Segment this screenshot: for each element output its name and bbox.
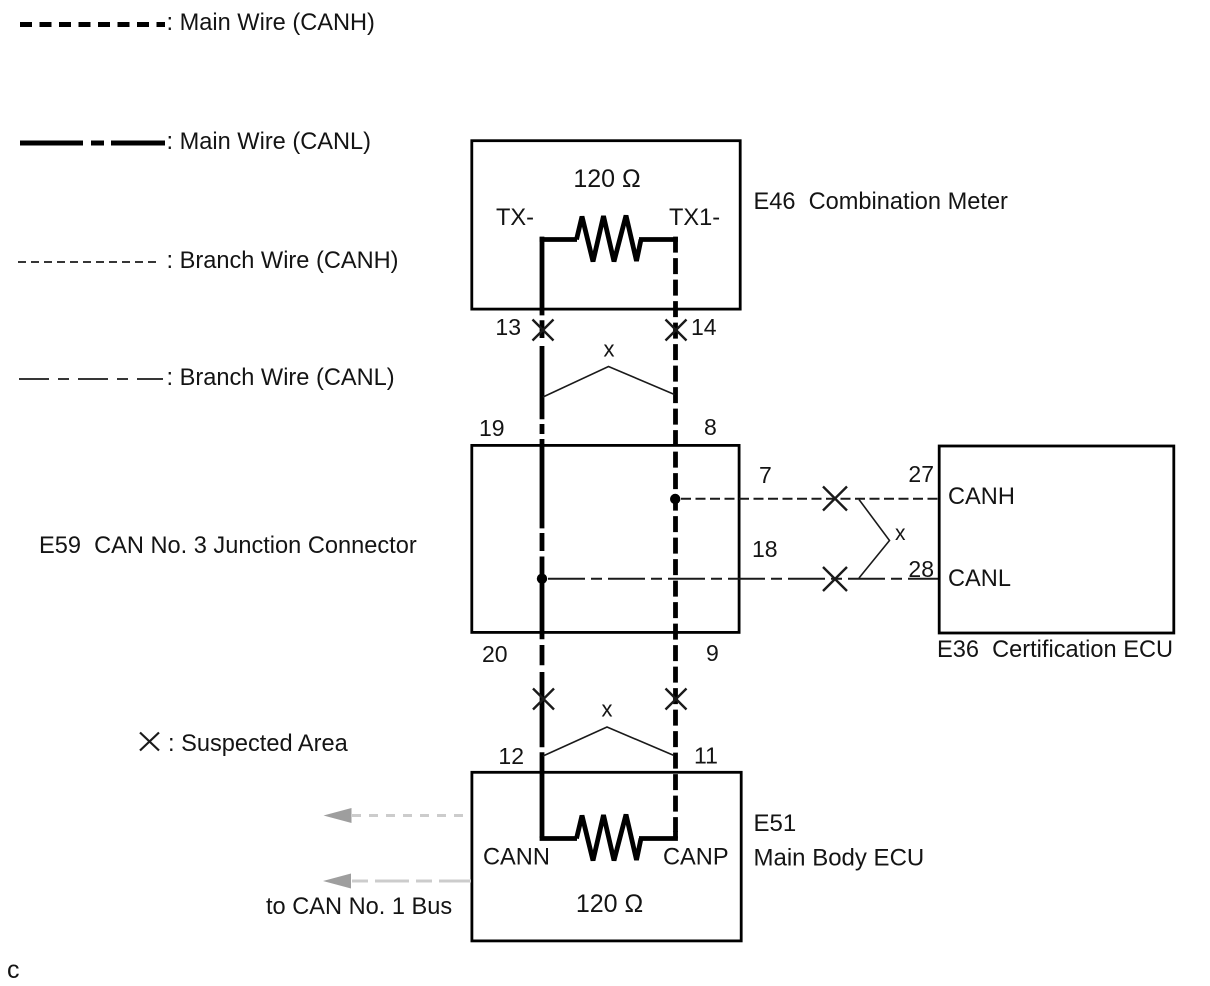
gray dashed line (CANH to CAN No.1 bus)	[352, 814, 471, 817]
wire CANH main vertical (TX1- to CANP)	[673, 237, 678, 832]
resistor R 120 ohm (E46)	[577, 216, 642, 262]
legend line: Branch Wire (CANL)	[19, 378, 163, 380]
svg-text:20: 20	[482, 641, 508, 667]
legend line: Main Wire (CANH)	[20, 22, 165, 27]
suspected X on CANL wire below E59	[533, 689, 554, 710]
svg-text:CANH: CANH	[948, 484, 1015, 510]
svg-text:to CAN No. 1 Bus: to CAN No. 1 Bus	[266, 894, 452, 920]
suspected X on CANL branch wire	[823, 567, 847, 591]
svg-text:TX1-: TX1-	[669, 205, 720, 231]
svg-text:12: 12	[498, 743, 524, 769]
arrow to CAN No.1 bus (CANL, gray dash-dot)	[323, 874, 351, 889]
resistor lead right (E51)	[639, 836, 678, 841]
branch wire CANH horizontal (junction to E36 pin 27)	[681, 498, 939, 500]
wire CANL main vertical (TX- to CANN), hand-phased dashes	[540, 237, 545, 838]
resistor lead right (E46)	[639, 237, 678, 242]
wire CANH corner segment at CANP lead	[673, 831, 678, 839]
svg-text:120 Ω: 120 Ω	[576, 890, 643, 918]
svg-text:: Suspected Area: : Suspected Area	[168, 731, 349, 757]
pointer roof line to both wires (lower)	[543, 727, 674, 756]
legend line: Main Wire (CANL)	[20, 141, 165, 146]
svg-text:9: 9	[706, 640, 719, 666]
svg-text:: Branch Wire (CANL): : Branch Wire (CANL)	[167, 365, 395, 391]
svg-text:28: 28	[908, 556, 934, 582]
suspected X on CANH wire below E46	[666, 320, 687, 341]
legend line: Branch Wire (CANH)	[18, 261, 157, 263]
svg-text:27: 27	[908, 461, 934, 487]
svg-text:TX-: TX-	[496, 205, 534, 231]
svg-text:: Branch Wire (CANH): : Branch Wire (CANH)	[167, 248, 399, 274]
resistor R 120 ohm (E51)	[577, 815, 642, 861]
svg-text:x: x	[602, 697, 613, 722]
svg-text:E51: E51	[754, 810, 797, 837]
svg-text:18: 18	[752, 536, 778, 562]
svg-text:CANN: CANN	[483, 845, 550, 871]
svg-text:14: 14	[691, 314, 717, 340]
svg-text:CANL: CANL	[948, 566, 1011, 592]
svg-text:x: x	[604, 337, 615, 362]
svg-text:8: 8	[704, 414, 717, 440]
ECU box E36 Certification ECU	[939, 446, 1174, 633]
svg-text:19: 19	[479, 415, 505, 441]
svg-text:Main Body ECU: Main Body ECU	[754, 845, 925, 872]
svg-text:E59 CAN No. 3 Junction Connec: E59 CAN No. 3 Junction Connector	[39, 533, 417, 559]
legend X symbol: Suspected Area	[140, 733, 159, 751]
svg-text:120 Ω: 120 Ω	[573, 165, 640, 193]
resistor lead left (E46)	[540, 237, 577, 242]
svg-text:11: 11	[694, 743, 718, 769]
branch wire CANL horizontal (junction to E36 pin 28)	[548, 578, 939, 580]
pointer chevron to E36 branch wires	[859, 500, 890, 579]
gray dash-dot line (CANL to CAN No.1 bus)	[352, 880, 471, 883]
suspected X on CANL wire below E46	[533, 320, 554, 341]
svg-text:c: c	[7, 956, 20, 984]
connector box E46 Combination Meter	[472, 141, 740, 309]
suspected X on CANH branch wire	[823, 487, 847, 511]
svg-text:7: 7	[759, 462, 772, 488]
ECU box E51 Main Body ECU	[472, 772, 741, 941]
svg-text:E46 Combination Meter: E46 Combination Meter	[754, 189, 1009, 215]
svg-text:E36 Certification ECU: E36 Certification ECU	[937, 637, 1173, 663]
suspected X on CANH wire below E59	[666, 689, 687, 710]
svg-text:CANP: CANP	[663, 845, 729, 871]
resistor lead left (E51)	[540, 836, 577, 841]
pointer roof line to both wires (upper)	[543, 367, 675, 398]
svg-text:: Main Wire (CANL): : Main Wire (CANL)	[167, 129, 372, 155]
arrow to CAN No.1 bus (CANH, gray dashed)	[324, 808, 352, 823]
junction connector box E59	[472, 445, 739, 632]
node: CANL branch junction dot	[537, 574, 547, 584]
svg-text:x: x	[895, 522, 906, 545]
svg-text:13: 13	[495, 314, 521, 340]
svg-text:: Main Wire (CANH): : Main Wire (CANH)	[167, 10, 375, 36]
node: CANH branch junction dot	[670, 494, 680, 504]
